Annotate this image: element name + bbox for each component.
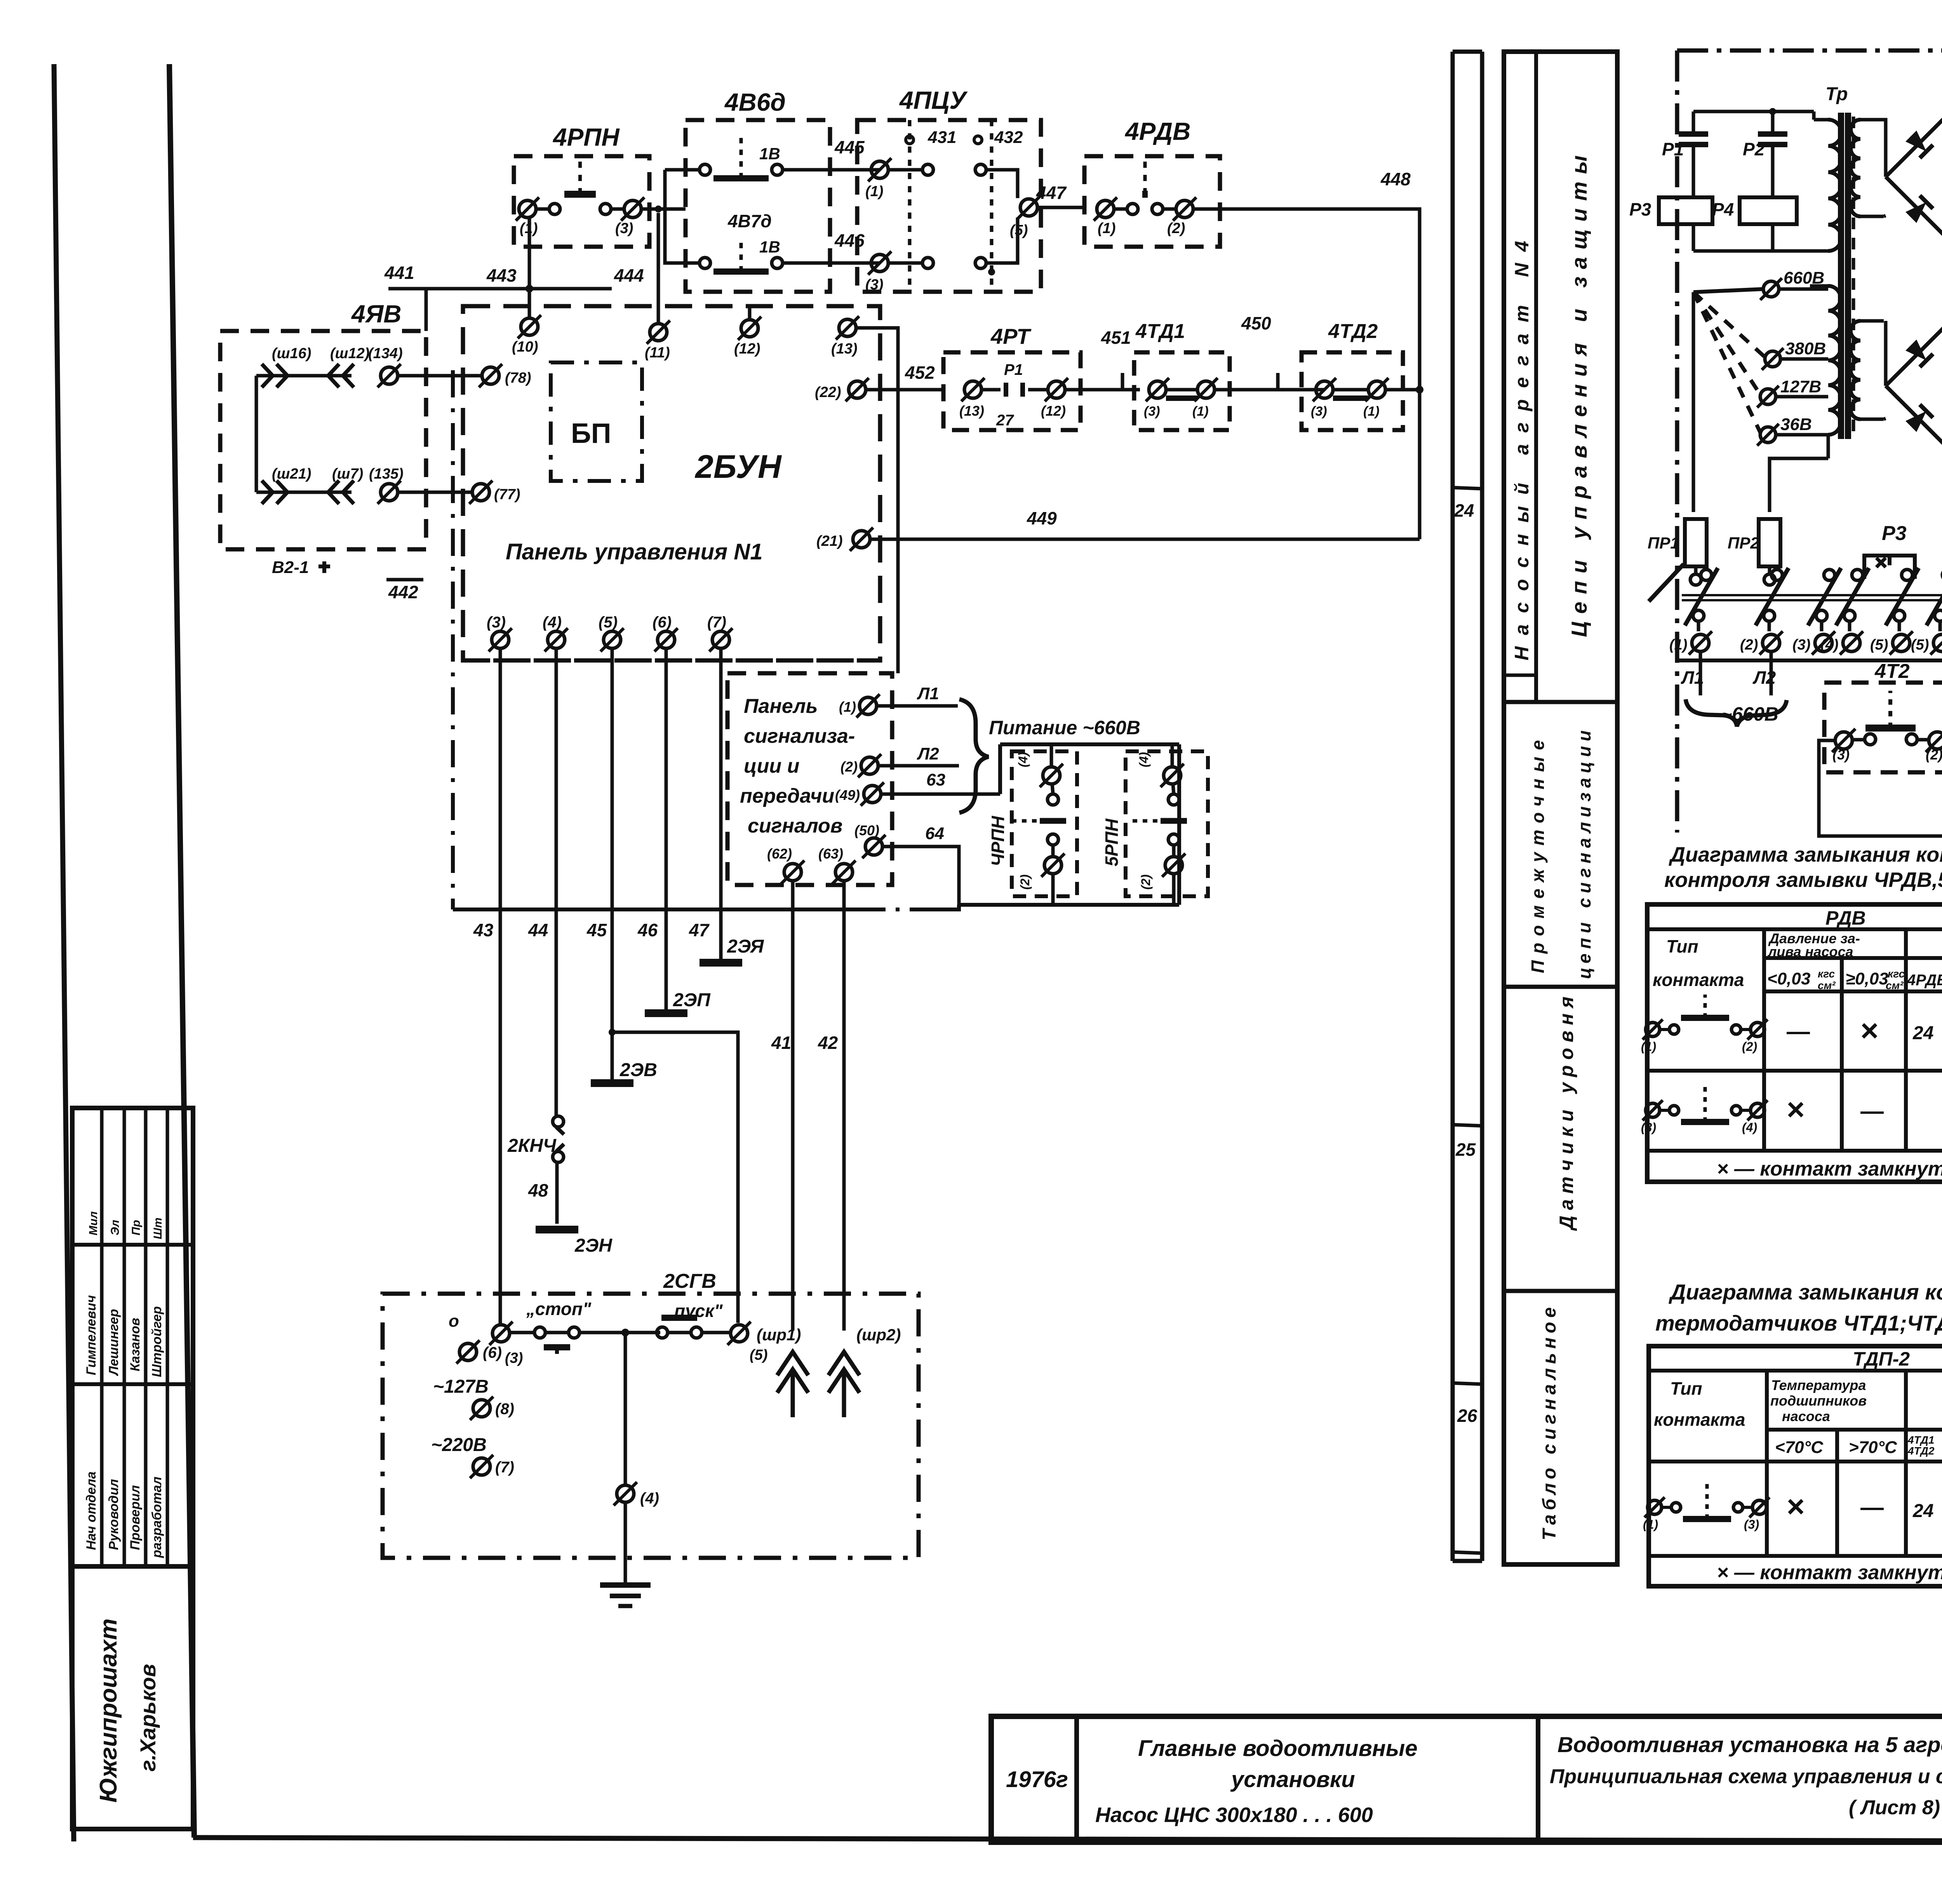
contact rail double line <box>1682 594 1942 596</box>
transformer secondary winding bottom right <box>1851 321 1860 419</box>
svg-text:(5): (5) <box>750 1347 767 1363</box>
svg-text:Мил: Мил <box>87 1211 100 1235</box>
svg-text:Главные водоотливные: Главные водоотливные <box>1138 1736 1418 1761</box>
svg-text:(135): (135) <box>369 466 404 482</box>
middle section column <box>1504 52 1617 1564</box>
wire from 4РПН(3) to 4В6д <box>641 207 686 211</box>
svg-text:(2): (2) <box>1740 637 1758 653</box>
svg-text:446: 446 <box>834 230 865 251</box>
4Т2 left leg wiring <box>1819 740 1942 836</box>
svg-text:(3): (3) <box>1832 747 1850 763</box>
svg-text:× — контакт замкнут: × — контакт замкнут <box>1717 1158 1942 1180</box>
svg-text:(1): (1) <box>1669 637 1687 653</box>
svg-text:(2): (2) <box>840 759 858 775</box>
terminal (5) <box>1933 634 1942 652</box>
svg-text:ПР1: ПР1 <box>1648 534 1679 552</box>
svg-text:передачи: передачи <box>740 785 834 807</box>
svg-text:47: 47 <box>689 920 710 940</box>
svg-text:ПР2: ПР2 <box>1728 534 1759 552</box>
bridge1 ac nodes wiring <box>1885 176 1886 177</box>
svg-text:64: 64 <box>925 824 944 843</box>
svg-text:Тр: Тр <box>1825 84 1848 105</box>
contact 1В top of 4В6д <box>700 164 710 175</box>
svg-text:г.Харьков: г.Харьков <box>136 1664 160 1772</box>
table ТДП-2 <box>1649 1346 1942 1586</box>
left feeder into 4В6д <box>658 209 686 209</box>
earth 2ЭЯ <box>700 959 742 967</box>
svg-text:(2): (2) <box>1139 874 1153 890</box>
svg-text:БП: БП <box>571 418 611 449</box>
winding taps with voltages <box>1763 281 1779 297</box>
svg-text:(3): (3) <box>1144 404 1160 419</box>
svg-text:цепи сигнализации: цепи сигнализации <box>1574 730 1594 979</box>
svg-text:(134): (134) <box>368 345 403 362</box>
svg-text:Шт: Шт <box>151 1218 164 1239</box>
wires caps to transformer primary <box>1693 110 1814 113</box>
svg-text:(2): (2) <box>1742 1040 1757 1054</box>
svg-text:(8): (8) <box>495 1401 514 1418</box>
svg-text:(4): (4) <box>1820 637 1838 653</box>
svg-text:41: 41 <box>771 1033 791 1053</box>
svg-text:(4): (4) <box>640 1490 659 1507</box>
svg-text:>70°С: >70°С <box>1849 1438 1897 1457</box>
svg-text:(78): (78) <box>505 370 531 386</box>
svg-text:—: — <box>1860 1098 1884 1124</box>
svg-text:(21): (21) <box>816 533 843 549</box>
svg-text:Диаграмма замыкания контакто: Диаграмма замыкания контактов реле <box>1669 843 1942 866</box>
svg-text:27: 27 <box>996 412 1014 429</box>
svg-text:(2): (2) <box>1018 874 1032 890</box>
svg-text:Принципиальная схема управлени: Принципиальная схема управления и сигнал… <box>1550 1765 1942 1788</box>
svg-text:441: 441 <box>384 263 414 283</box>
transformer primary winding top <box>1828 120 1841 251</box>
svg-text:Южгипрошахт: Южгипрошахт <box>95 1618 122 1803</box>
svg-text:(4): (4) <box>1742 1120 1757 1134</box>
svg-text:см²: см² <box>1886 979 1904 991</box>
svg-text:2ЭЯ: 2ЭЯ <box>727 936 764 957</box>
svg-text:(1): (1) <box>839 699 856 715</box>
panel top terminals (10)-(13) <box>521 318 538 335</box>
svg-text:(5): (5) <box>1870 637 1888 653</box>
svg-text:(1): (1) <box>865 183 883 200</box>
svg-text:Р4: Р4 <box>1712 199 1734 219</box>
svg-text:452: 452 <box>905 362 935 383</box>
svg-text:4ТД2: 4ТД2 <box>1907 1445 1935 1457</box>
svg-text:(3): (3) <box>505 1350 523 1366</box>
signal panel terminal (49) wire 63 <box>864 786 881 803</box>
panel terminal (5) <box>604 631 621 648</box>
bus under terminals <box>1677 658 1942 662</box>
signal panel box Панель сигнализации <box>727 673 892 885</box>
svg-text:×: × <box>1787 1489 1805 1524</box>
svg-text:Тип: Тип <box>1670 1378 1702 1399</box>
svg-text:45: 45 <box>586 920 607 940</box>
svg-text:36В: 36В <box>1780 415 1812 434</box>
earth 2ЭП <box>645 1009 687 1017</box>
svg-text:(7): (7) <box>707 614 726 631</box>
svg-text:РДВ: РДВ <box>1825 907 1866 929</box>
svg-text:(3): (3) <box>615 220 633 237</box>
signal panel terminal (1) wire Л1 <box>860 697 877 714</box>
svg-text:24: 24 <box>1454 500 1474 521</box>
terminal (1) <box>1692 634 1709 652</box>
knife switch (3) <box>1824 570 1835 580</box>
svg-text:≥0,03: ≥0,03 <box>1846 969 1888 988</box>
svg-text:Руководил: Руководил <box>106 1479 121 1550</box>
svg-text:Л1: Л1 <box>917 684 939 703</box>
control panel box Панель управления N1 <box>463 306 880 660</box>
rectifier bridge 2 <box>1886 320 1942 452</box>
svg-text:24: 24 <box>1912 1023 1933 1043</box>
panel terminal (6) <box>658 631 675 648</box>
svg-text:разработал: разработал <box>150 1477 164 1558</box>
svg-text:431: 431 <box>927 128 956 147</box>
svg-text:(4): (4) <box>1137 752 1151 767</box>
svg-text:(ш16): (ш16) <box>272 345 311 362</box>
svg-text:В2-1: В2-1 <box>272 558 309 577</box>
svg-text:(шр2): (шр2) <box>856 1326 901 1344</box>
svg-text:(1): (1) <box>1643 1517 1658 1531</box>
svg-text:2СГВ: 2СГВ <box>663 1270 716 1293</box>
svg-text:×: × <box>1787 1092 1805 1127</box>
svg-text:450: 450 <box>1241 313 1271 333</box>
svg-text:(13): (13) <box>959 403 984 419</box>
svg-text:~660В: ~660В <box>1721 703 1778 725</box>
supply entry slash <box>1649 564 1684 601</box>
svg-text:48: 48 <box>528 1180 548 1200</box>
right schematic dash-dot frame <box>1677 49 1942 53</box>
svg-text:—: — <box>1787 1018 1810 1044</box>
svg-text:ции и: ции и <box>744 755 799 777</box>
svg-text:кгс: кгс <box>1888 968 1905 980</box>
svg-text:Насос ЦНС 300х180 . . . 6: Насос ЦНС 300х180 . . . 600 <box>1095 1803 1373 1827</box>
svg-text:подшипников: подшипников <box>1770 1393 1867 1409</box>
knife switch (1) <box>1701 570 1712 580</box>
svg-text:Эл: Эл <box>109 1219 122 1235</box>
svg-text:сигнализа-: сигнализа- <box>744 725 855 747</box>
svg-text:Пр: Пр <box>130 1220 143 1235</box>
svg-text:Р1: Р1 <box>1004 361 1023 378</box>
svg-text:449: 449 <box>1027 508 1057 528</box>
svg-text:установки: установки <box>1230 1767 1355 1792</box>
svg-text:(4): (4) <box>1016 752 1030 767</box>
svg-text:442: 442 <box>388 582 418 602</box>
tap selector dashed fan <box>1693 289 1763 292</box>
knife switch (4) <box>1852 570 1863 580</box>
svg-text:4ЯВ: 4ЯВ <box>351 300 401 328</box>
svg-text:Водоотливная установка на: Водоотливная установка на 5 агрегатов <box>1557 1732 1942 1757</box>
svg-text:(1): (1) <box>1363 404 1380 419</box>
svg-text:Гимпелевич: Гимпелевич <box>84 1295 99 1375</box>
transformer secondary tapped winding bottom <box>1828 286 1841 435</box>
svg-text:<0,03: <0,03 <box>1767 969 1810 988</box>
transformer core <box>1838 113 1844 439</box>
aux contact solid box <box>1000 742 1179 746</box>
terminal (2) <box>1763 634 1780 652</box>
panel terminal (3) <box>492 631 509 648</box>
svg-text:127В: 127В <box>1780 377 1821 396</box>
svg-text:2ЭВ: 2ЭВ <box>619 1060 657 1080</box>
svg-text:~220В: ~220В <box>431 1435 487 1455</box>
svg-text:(12): (12) <box>734 341 760 357</box>
svg-text:445: 445 <box>834 137 865 157</box>
svg-text:(4): (4) <box>543 614 562 631</box>
svg-text:(49): (49) <box>835 787 860 803</box>
svg-text:(77): (77) <box>494 486 520 503</box>
svg-text:(62): (62) <box>767 846 792 862</box>
signal panel terminals (62)(63)(50) wire 64 <box>784 864 801 881</box>
svg-text:4В6д: 4В6д <box>724 88 786 116</box>
svg-text:451: 451 <box>1101 327 1131 348</box>
svg-text:Проверил: Проверил <box>128 1485 143 1550</box>
svg-text:(13): (13) <box>831 341 858 357</box>
middle wire-number strip <box>1451 52 1455 1561</box>
bridge1 connections <box>1884 120 1886 177</box>
svg-text:(5): (5) <box>1911 637 1929 653</box>
svg-text:Лешингер: Лешингер <box>106 1309 121 1376</box>
svg-text:26: 26 <box>1457 1406 1477 1426</box>
svg-text:(2): (2) <box>1926 747 1942 763</box>
svg-text:2ЭП: 2ЭП <box>673 990 711 1010</box>
svg-text:насоса: насоса <box>1782 1408 1830 1424</box>
svg-text:(3): (3) <box>487 614 506 631</box>
lower bus line under panel <box>453 908 862 911</box>
svg-text:(11): (11) <box>645 345 670 361</box>
signature table <box>72 1108 193 1829</box>
svg-text:4ТД1: 4ТД1 <box>1907 1434 1934 1446</box>
panel terminal (4) <box>548 631 565 648</box>
svg-text:о: о <box>449 1312 459 1331</box>
svg-text:1В: 1В <box>759 145 780 163</box>
svg-text:контроля замывки ЧРДВ,5РДВ: контроля замывки ЧРДВ,5РДВ <box>1664 868 1942 892</box>
svg-text:ЧРПН: ЧРПН <box>988 816 1008 866</box>
4ЯВ loop left side <box>255 376 258 492</box>
svg-text:44: 44 <box>528 920 548 940</box>
panel terminal (7) <box>712 631 729 648</box>
РДВ row1 contact symbol <box>1646 1023 1660 1036</box>
svg-text:Р3: Р3 <box>1882 522 1907 545</box>
svg-text:( Лист 8): ( Лист 8) <box>1849 1796 1940 1819</box>
svg-text:(1): (1) <box>1192 404 1209 419</box>
terminal (4) <box>1843 634 1860 652</box>
svg-text:432: 432 <box>994 128 1023 147</box>
aux contact box 4РПН (bottom) <box>1012 751 1077 896</box>
svg-text:Панель управления N1: Панель управления N1 <box>506 539 762 564</box>
branch wire to пуск button <box>609 1029 616 1036</box>
svg-text:Табло сигнальное: Табло сигнальное <box>1539 1307 1560 1540</box>
svg-text:(7): (7) <box>495 1459 514 1476</box>
panel lower dashed edge <box>463 658 877 663</box>
brace Питание ~660В <box>959 699 988 813</box>
svg-text:43: 43 <box>473 920 494 940</box>
brace ~660В <box>1686 699 1787 726</box>
svg-text:Нач отдела: Нач отдела <box>84 1472 99 1550</box>
node (78) <box>482 367 499 384</box>
svg-text:443: 443 <box>486 265 517 286</box>
aux contact box 5РПН (bottom) <box>1126 751 1208 896</box>
left schematic dash-dot boundary <box>451 370 455 909</box>
svg-text:1В: 1В <box>759 238 780 256</box>
table РДВ <box>1647 904 1942 1182</box>
svg-text:(1): (1) <box>1098 220 1115 237</box>
node (22) left <box>849 381 866 398</box>
svg-text:(5): (5) <box>599 614 618 631</box>
svg-text:4Т2: 4Т2 <box>1874 660 1910 683</box>
earth 2ЭВ <box>591 1079 633 1087</box>
4ПЦУ output (5) <box>1020 199 1037 216</box>
svg-text:4РТ: 4РТ <box>990 324 1032 348</box>
title block <box>991 1716 1942 1842</box>
svg-text:4ПЦУ: 4ПЦУ <box>899 86 968 114</box>
svg-text:Л2: Л2 <box>917 744 939 763</box>
knife switch (5) <box>1902 570 1912 580</box>
transformer secondary winding top right <box>1851 120 1860 216</box>
svg-text:(50): (50) <box>854 822 879 838</box>
knife switch (2) <box>1771 570 1782 580</box>
svg-text:×: × <box>1860 1013 1879 1048</box>
svg-text:46: 46 <box>637 920 658 940</box>
svg-text:4ТД1: 4ТД1 <box>1135 320 1185 343</box>
svg-text:Панель: Панель <box>744 695 818 718</box>
svg-text:Казанов: Казанов <box>128 1318 143 1371</box>
svg-text:контакта: контакта <box>1654 1409 1745 1430</box>
svg-text:(шр1): (шр1) <box>757 1326 801 1344</box>
svg-text:(ш12): (ш12) <box>330 345 369 362</box>
svg-text:1976г: 1976г <box>1006 1767 1068 1792</box>
svg-text:2БУН: 2БУН <box>694 448 782 485</box>
svg-text:42: 42 <box>818 1033 838 1053</box>
svg-text:(3): (3) <box>1792 637 1810 653</box>
svg-text:термодатчиков ЧТД1;ЧТД2;5ТД1;: термодатчиков ЧТД1;ЧТД2;5ТД1;5ТД2 <box>1655 1311 1942 1335</box>
svg-text:(63): (63) <box>818 846 843 862</box>
svg-text:„стоп": „стоп" <box>526 1299 592 1319</box>
svg-text:5РПН: 5РПН <box>1102 819 1122 866</box>
svg-text:Р3: Р3 <box>1629 199 1651 219</box>
svg-text:25: 25 <box>1455 1139 1476 1160</box>
svg-text:ТДП-2: ТДП-2 <box>1853 1348 1910 1370</box>
sheet frame bottom border <box>193 1838 1942 1842</box>
svg-text:(12): (12) <box>1041 403 1066 419</box>
terminal (5) <box>1893 634 1910 652</box>
signal panel terminal (2) wire Л2 <box>861 757 878 774</box>
svg-text:660В: 660В <box>1784 268 1824 287</box>
feeder lines down to fuses <box>1692 292 1695 512</box>
junction to earth (4) <box>621 1329 629 1336</box>
svg-text:(3): (3) <box>1641 1120 1656 1134</box>
svg-text:(3): (3) <box>1311 404 1327 419</box>
svg-text:(10): (10) <box>512 339 538 355</box>
svg-text:(3): (3) <box>1744 1517 1759 1531</box>
svg-text:2КНЧ: 2КНЧ <box>507 1136 557 1156</box>
svg-text:(3): (3) <box>865 277 883 293</box>
svg-text:× — контакт замкнут: × — контакт замкнут <box>1717 1561 1942 1584</box>
fuse to switch wires <box>1695 567 1696 585</box>
sheet frame left border inner line <box>54 64 74 1841</box>
svg-text:447: 447 <box>1036 183 1067 203</box>
svg-text:448: 448 <box>1380 169 1411 189</box>
svg-text:кгс: кгс <box>1818 968 1835 980</box>
svg-text:(22): (22) <box>815 384 841 401</box>
svg-text:<70°С: <70°С <box>1775 1438 1824 1457</box>
svg-text:444: 444 <box>614 265 644 286</box>
svg-text:Питание ~660В: Питание ~660В <box>989 717 1140 739</box>
svg-text:Диаграмма замыкания контакто: Диаграмма замыкания контактов <box>1669 1280 1942 1304</box>
svg-text:(ш7): (ш7) <box>332 466 363 482</box>
svg-text:см²: см² <box>1818 979 1836 991</box>
svg-text:4РДВ: 4РДВ <box>1907 972 1942 989</box>
svg-text:~127В: ~127В <box>433 1376 489 1397</box>
svg-text:4РДВ: 4РДВ <box>1124 117 1190 145</box>
svg-text:Температура: Температура <box>1771 1377 1866 1393</box>
svg-text:24: 24 <box>1912 1501 1933 1521</box>
svg-text:380В: 380В <box>1785 339 1826 358</box>
node (77) <box>472 484 489 501</box>
svg-text:Штройгер: Штройгер <box>150 1306 164 1377</box>
svg-text:контакта: контакта <box>1653 970 1744 990</box>
bridge2 connections <box>1884 321 1888 386</box>
svg-text:2ЭН: 2ЭН <box>574 1235 613 1256</box>
svg-text:63: 63 <box>926 770 945 789</box>
svg-text:4ТД2: 4ТД2 <box>1328 320 1378 343</box>
svg-text:(6): (6) <box>483 1344 502 1361</box>
svg-text:4РПН: 4РПН <box>552 123 620 151</box>
earth 2ЭН <box>536 1226 578 1233</box>
svg-text:4В7д: 4В7д <box>727 211 772 231</box>
svg-text:сигналов: сигналов <box>748 815 842 837</box>
power unit БП <box>551 362 642 481</box>
earth symbol under 2СГВ <box>600 1582 651 1588</box>
svg-text:Тип: Тип <box>1666 936 1698 956</box>
terminal (3) <box>1815 634 1832 652</box>
svg-text:(1): (1) <box>1641 1040 1656 1054</box>
svg-text:—: — <box>1860 1494 1884 1520</box>
svg-text:(2): (2) <box>1167 220 1185 237</box>
svg-text:лива насоса: лива насоса <box>1767 944 1853 960</box>
wire from (13) to signal panel <box>856 328 898 673</box>
sheet frame left border outer line <box>169 64 194 1838</box>
svg-text:(6): (6) <box>653 614 672 631</box>
